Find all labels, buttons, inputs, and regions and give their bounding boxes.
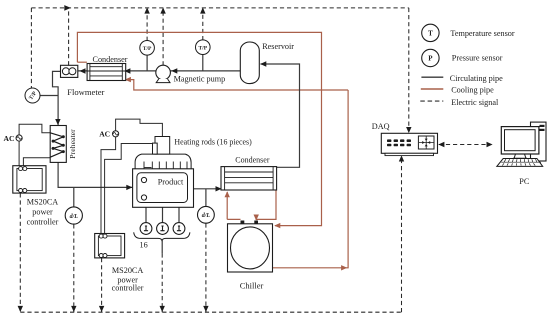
svg-text:AC: AC [99, 130, 110, 139]
svg-text:Condenser: Condenser [93, 55, 128, 64]
svg-text:T: T [428, 30, 433, 38]
svg-text:Product: Product [158, 177, 184, 186]
svg-text:MS20CA: MS20CA [27, 198, 58, 207]
svg-text:Preheater: Preheater [68, 129, 77, 159]
svg-text:Reservoir: Reservoir [262, 42, 294, 51]
svg-text:Magnetic pump: Magnetic pump [174, 75, 226, 84]
svg-text:MS20CA: MS20CA [112, 266, 143, 275]
svg-text:Cooling pipe: Cooling pipe [451, 86, 494, 95]
svg-text:T/P: T/P [198, 45, 207, 51]
svg-text:d/L: d/L [202, 213, 211, 219]
svg-text:controller: controller [27, 218, 59, 227]
svg-text:DAQ: DAQ [372, 122, 390, 131]
svg-text:Chiller: Chiller [240, 281, 264, 291]
svg-text:Pressure sensor: Pressure sensor [452, 54, 503, 63]
svg-text:16: 16 [140, 241, 148, 250]
svg-text:Flowmeter: Flowmeter [67, 87, 104, 97]
svg-text:controller: controller [112, 283, 144, 292]
svg-text:P: P [428, 55, 433, 63]
svg-text:Electric signal: Electric signal [451, 98, 499, 107]
svg-text:T/P: T/P [143, 46, 152, 52]
svg-text:AC: AC [4, 134, 15, 143]
svg-text:Heating rods (16 pieces): Heating rods (16 pieces) [174, 137, 252, 146]
svg-text:Condenser: Condenser [235, 156, 270, 165]
svg-text:Circulating pipe: Circulating pipe [450, 74, 503, 83]
svg-text:Temperature sensor: Temperature sensor [450, 29, 514, 38]
svg-text:PC: PC [519, 177, 530, 186]
svg-text:d/L: d/L [70, 214, 79, 220]
svg-text:power: power [32, 208, 53, 217]
